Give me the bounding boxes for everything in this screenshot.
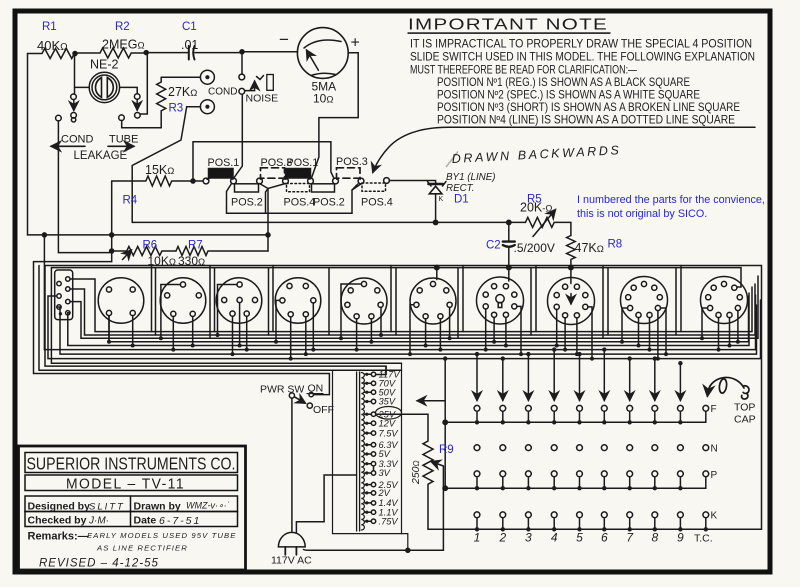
switch POS.2 white square B [312,184,335,192]
tube socket V1 [98,278,144,324]
svg-text:POS.2: POS.2 [231,197,263,209]
svg-text:.75V: .75V [379,516,399,526]
svg-text:15KΩ: 15KΩ [145,163,174,177]
svg-text:ON: ON [308,383,324,395]
wire feed to c1 and c6 [193,142,334,178]
wire C1 node down to NOISE [241,52,243,74]
svg-text:WMZ-v·∘·˙: WMZ-v·∘·˙ [186,501,230,511]
svg-text:27KΩ: 27KΩ [168,85,197,99]
svg-text:R9: R9 [439,444,454,456]
svg-text:DRAWN BACKWARDS: DRAWN BACKWARDS [451,143,621,166]
svg-text:R8: R8 [608,239,623,251]
terminal column numbers [474,531,684,545]
tube socket V3 [216,278,262,335]
capacitor C2 .5/200V [503,222,515,267]
wire 117V tap up to bus [376,366,386,374]
transformer core [357,372,360,531]
svg-text:5V: 5V [379,449,391,459]
wire TUBE contact to R2 junction [140,54,147,115]
wire c3 c4 merge down to R7 [260,184,286,252]
potentiometer R6 10K [110,247,177,260]
switch POS.1 black square B [286,169,311,179]
wire to meter minus [242,51,298,53]
switch leakage right [119,94,141,121]
svg-text:.01: .01 [181,38,198,52]
wire block buses [70,279,752,332]
svg-text:POS.4: POS.4 [284,197,316,209]
svg-text:SLITT: SLITT [89,502,125,513]
svg-text:Designed by: Designed by [28,501,91,513]
node R6 left [110,249,114,253]
svg-text:7.5V: 7.5V [379,428,399,438]
svg-text:35V: 35V [379,397,396,407]
wire top cap pigtail [707,377,749,399]
switch POS.3 broken square B [337,168,361,178]
svg-text:POSITION Nº2 (SPEC.) IS SHOWN: POSITION Nº2 (SPEC.) IS SHOWN AS A WHITE… [437,89,700,102]
svg-text:NOISE: NOISE [246,93,279,105]
svg-text:POSITION Nº4 (LINE) IS SHOWN A: POSITION Nº4 (LINE) IS SHOWN AS A DOTTED… [437,114,735,127]
svg-text:Drawn by: Drawn by [134,501,181,513]
wire bus1 [132,221,525,223]
switch POS.4 dotted square A [287,184,310,192]
node junction R1-R2 [73,52,77,56]
svg-text:7: 7 [626,531,634,545]
switch leakage left [56,94,77,122]
tube socket V8 [548,268,595,359]
wire nest rails left [34,262,330,395]
wire R3 jack diagonal to bus1 [132,107,200,223]
plug 117VAC [278,532,305,554]
tap jumper 3.3V-3V [373,466,375,471]
terminal row F circles and stems [445,405,708,424]
svg-text:MODEL – TV-11: MODEL – TV-11 [66,477,185,493]
pencil slash [447,152,458,167]
resistor R1 40K [28,49,76,235]
svg-text:10Ω: 10Ω [313,92,333,106]
svg-text:12V: 12V [379,418,396,428]
wire 27K top to COND jack [161,76,200,78]
arrow COND leakage [51,145,85,147]
transformer taps [364,372,375,523]
svg-text:250Ω: 250Ω [410,460,422,485]
svg-text:.5/200V: .5/200V [514,241,555,255]
wire TUBE left contact to 27K bottom [122,121,162,128]
svg-text:J·M·: J·M· [88,516,109,527]
connector block [55,270,73,320]
svg-text:−: − [279,30,289,49]
wire switch square feet [207,178,360,180]
svg-text:POSITION Nº1 (REG.) IS SHOWN A: POSITION Nº1 (REG.) IS SHOWN AS A BLACK … [437,76,690,89]
transformer secondary winding [361,373,364,531]
svg-text:C2: C2 [486,240,501,252]
svg-text:2V: 2V [378,488,391,498]
svg-text:SUPERIOR INSTRUMENTS CO.: SUPERIOR INSTRUMENTS CO. [27,454,236,474]
switch PWR SW [289,392,313,408]
wire NE-2 left lead [75,86,90,88]
note bottom rule and arrow to switch [373,127,755,172]
svg-text:Date: Date [134,515,157,527]
svg-text:POS.1: POS.1 [287,157,319,169]
node R4 wire dot [191,179,195,183]
svg-text:20K‑Ω: 20K‑Ω [520,201,553,215]
svg-text:40KΩ: 40KΩ [37,38,68,53]
svg-text:+: + [351,35,360,52]
wire NE-2 right lead [120,87,138,93]
svg-text:3: 3 [525,531,532,545]
wire COND contact down [58,121,109,253]
arrow TUBE leakage [108,145,134,147]
svg-text:Checked by: Checked by [28,515,87,527]
meter 5MA [297,28,348,79]
svg-text:AS LINE RECTIFIER: AS LINE RECTIFIER [96,544,188,553]
wire transformer bottom stub [402,534,408,551]
switch POS.4 dotted square B [362,183,386,191]
tube socket V4 [275,278,321,342]
svg-text:R1: R1 [42,21,57,33]
svg-text:3V: 3V [379,468,391,478]
tube socket V9 [621,277,668,355]
tube socket V7 octal [477,268,524,355]
svg-text:6-7-51: 6-7-51 [159,515,201,527]
svg-text:TOP: TOP [734,402,755,414]
svg-text:POS.1: POS.1 [208,157,240,169]
svg-text:POS.2: POS.2 [313,197,345,209]
wire bus3 above sockets [51,268,741,287]
svg-text:47KΩ: 47KΩ [575,241,604,255]
jack COND top [200,70,214,84]
note body [410,38,755,127]
terminal row N circles [474,445,709,451]
svg-text:R3: R3 [169,103,184,115]
svg-text:K: K [711,511,718,522]
svg-text:MUST THEREFORE BE READ FOR CLA: MUST THEREFORE BE READ FOR CLARIFICATION… [410,64,637,77]
switch POS.1 black square A [209,169,234,179]
resistor R2 2MEG [75,48,146,58]
svg-text:IT IS IMPRACTICAL TO PROPERLY: IT IS IMPRACTICAL TO PROPERLY DRAW THE S… [410,38,752,51]
node dot bus2 at 268 [266,233,270,237]
lamp NE-2 [89,72,119,102]
node column feed dots [443,347,683,365]
wire plug to R9 wiper [304,466,444,550]
resistor R3 27K [157,77,166,128]
svg-text:R2: R2 [115,21,130,33]
wire terminal column feeds with arrows [477,350,680,401]
wire meter plus down to switch c5 [312,53,359,178]
svg-text:I numbered the parts for the c: I numbered the parts for the convience, [577,194,765,206]
title block frame [19,446,246,570]
svg-text:IMPORTANT NOTE: IMPORTANT NOTE [408,17,608,34]
wire NOISE down to switch c2 [234,94,243,178]
jack NOISE [239,74,273,94]
wire pivot to plug [291,398,293,531]
node junction R2-C1 [144,51,148,55]
wire nest top [45,266,762,530]
svg-text:POSITION Nº3 (SHORT) IS SHOWN: POSITION Nº3 (SHORT) IS SHOWN AS A BROKE… [437,101,740,114]
switch contacts row [203,178,389,184]
capacitor C1 .01 [146,46,242,60]
svg-text:R7: R7 [188,240,203,252]
svg-text:9: 9 [677,531,684,545]
svg-text:2MEGΩ: 2MEGΩ [102,38,145,52]
svg-text:10KΩ: 10KΩ [148,254,176,268]
switch position labels [208,156,393,209]
wire 35V arrow vertical [444,359,446,489]
transformer T1 enclosure [333,363,402,533]
tube socket V10 [701,277,748,339]
wire bus2 [28,234,269,236]
switch POS.2 white square A [235,184,259,192]
svg-text:N: N [711,444,718,455]
svg-text:CAP: CAP [734,414,756,426]
node pin drop dots [107,265,740,360]
wire socket pin drops [109,303,738,359]
svg-text:POS.4: POS.4 [361,197,393,209]
resistor R4 15K [34,176,207,262]
diode D1 BY1 rect [428,182,447,223]
svg-text:6: 6 [601,531,608,545]
svg-text:R6: R6 [143,240,158,252]
svg-text:PWR SW: PWR SW [260,384,304,396]
node junction C1-meter-noise [240,50,244,54]
wire loop mid vertical [266,189,269,214]
svg-text:T.C.: T.C. [694,533,713,545]
tube socket V2 [160,278,206,339]
svg-text:8: 8 [651,531,658,545]
svg-text:BY1 (LINE): BY1 (LINE) [446,172,496,183]
svg-text:R4: R4 [123,195,138,207]
svg-text:COND: COND [61,134,93,146]
terminal row K circles and stems [428,512,762,532]
svg-text:D1: D1 [454,194,469,206]
svg-text:NE-2: NE-2 [90,58,119,72]
wire inter-socket verticals [152,266,682,339]
svg-text:REVISED – 4-12-55: REVISED – 4-12-55 [39,558,159,570]
svg-text:POS.3: POS.3 [336,156,368,168]
svg-text:4: 4 [551,531,558,545]
svg-text:5: 5 [576,531,583,545]
svg-text:2: 2 [498,531,506,545]
svg-text:RECT.: RECT. [446,183,475,194]
svg-text:F: F [711,404,717,415]
svg-text:K: K [439,196,444,203]
svg-text:this is not original by SICO.: this is not original by SICO. [577,208,707,220]
wire U-loop under switch [227,184,358,214]
ON underline [307,393,324,395]
svg-text:LEAKAGE: LEAKAGE [74,150,128,162]
potentiometer R5 20K [525,210,571,237]
svg-text:P: P [711,470,718,481]
svg-text:Remarks:—: Remarks:— [28,531,89,543]
resistor R7 330 [176,247,268,256]
svg-text:SLIDE SWITCH USED IN THIS MODE: SLIDE SWITCH USED IN THIS MODEL. THE FOL… [410,51,755,64]
node diode-bus1 [433,220,437,224]
wire plug to transformer primary [296,475,356,533]
tube socket V6 [410,268,456,355]
svg-text:C1: C1 [182,21,197,33]
svg-text:1: 1 [474,531,481,545]
node R8 bus3 [569,265,573,269]
wire c8 to diode [389,181,435,184]
wire R1R2 junction down to leakage switch [74,54,76,95]
resistor R9 250 ohm [376,414,433,529]
node bus2 rail [42,233,46,237]
svg-text:TUBE: TUBE [109,134,138,146]
svg-text:COND: COND [208,87,237,98]
wire c7 down to bus [352,184,361,190]
svg-text:OFF: OFF [313,404,334,416]
jack R3 bottom [200,100,214,114]
svg-text:330Ω: 330Ω [178,254,205,268]
tube socket V5 [341,278,387,338]
svg-text:EARLY MODELS USED 95V TUBE: EARLY MODELS USED 95V TUBE [87,531,237,540]
switch POS.3 broken square A [261,168,285,178]
resistor R8 47K [567,236,576,268]
terminal row P circles and stems [445,471,708,491]
svg-text:117V AC: 117V AC [271,555,312,567]
